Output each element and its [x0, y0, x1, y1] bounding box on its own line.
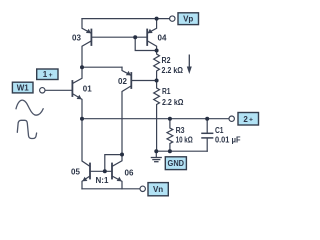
svg-text:02: 02 [118, 77, 127, 86]
svg-text:1: 1 [43, 70, 48, 79]
svg-text:W1: W1 [17, 83, 30, 92]
svg-text:+: + [49, 72, 53, 79]
svg-text:R3: R3 [176, 126, 185, 135]
svg-text:06: 06 [125, 169, 134, 178]
svg-text:R2: R2 [162, 56, 171, 65]
svg-text:2: 2 [243, 115, 248, 124]
svg-text:+: + [249, 117, 253, 124]
svg-text:Vn: Vn [153, 185, 163, 194]
svg-text:03: 03 [72, 33, 81, 42]
svg-text:2.2 kΩ: 2.2 kΩ [162, 66, 184, 75]
svg-text:2.2 kΩ: 2.2 kΩ [162, 98, 184, 107]
svg-text:01: 01 [83, 85, 92, 94]
svg-text:R1: R1 [162, 87, 171, 96]
svg-text:GND: GND [168, 159, 185, 168]
svg-text:10 kΩ: 10 kΩ [176, 136, 194, 145]
svg-text:C1: C1 [215, 126, 224, 135]
svg-text:0.01 μF: 0.01 μF [215, 136, 241, 145]
svg-text:05: 05 [71, 167, 80, 176]
svg-text:Vp: Vp [183, 15, 193, 24]
svg-text:N:1: N:1 [96, 176, 109, 185]
svg-text:04: 04 [158, 33, 167, 42]
